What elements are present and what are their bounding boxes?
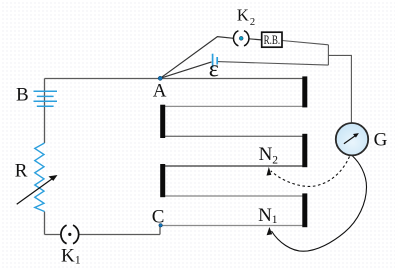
- svg-text:G: G: [374, 129, 388, 150]
- svg-text:K: K: [61, 245, 75, 266]
- svg-text:1: 1: [272, 214, 278, 226]
- svg-text:1: 1: [75, 254, 81, 266]
- svg-text:N: N: [258, 205, 272, 226]
- svg-text:C: C: [152, 206, 165, 227]
- svg-text:N: N: [259, 144, 273, 165]
- svg-text:ε: ε: [209, 56, 219, 82]
- svg-text:2: 2: [250, 17, 255, 28]
- svg-text:2: 2: [272, 154, 278, 166]
- svg-text:R: R: [15, 160, 28, 181]
- svg-text:B: B: [16, 84, 29, 105]
- svg-text:R.B.: R.B.: [264, 33, 281, 47]
- svg-text:K: K: [237, 5, 249, 24]
- svg-text:A: A: [153, 81, 167, 102]
